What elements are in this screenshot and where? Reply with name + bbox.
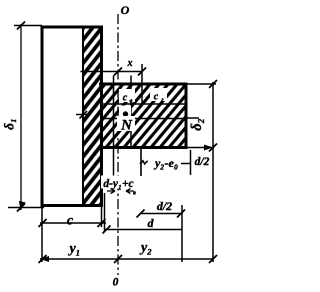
svg-text:y₂-e₀: y₂-e₀ (153, 156, 178, 170)
svg-text:y₁: y₁ (67, 242, 80, 257)
svg-text:O: O (121, 3, 130, 17)
N height mark on strip (76, 114, 91, 116)
y1 y2 dimension (40, 258, 214, 260)
ticks c_v c_g (112, 100, 120, 108)
d dimension (104, 193, 106, 231)
internal vertical x=131 (130, 76, 132, 148)
label d-y1+c_v (101, 176, 138, 189)
row: y2-e0 and d/2 labels (140, 148, 142, 176)
right block outline (99, 84, 186, 148)
svg-text:c: c (123, 93, 128, 104)
svg-text:d/2: d/2 (195, 156, 210, 168)
svg-text:d: d (148, 216, 155, 230)
b2 dimension (186, 83, 216, 85)
svg-text:c: c (154, 92, 159, 103)
x dimension (81, 71, 143, 73)
hatched compressed zone (strip + right block) (83, 27, 102, 206)
d/2 dimension bottom (181, 205, 183, 262)
c dimension (41, 206, 43, 263)
svg-text:d/2: d/2 (157, 199, 172, 213)
svg-text:N: N (120, 118, 133, 134)
svg-text:δ₁: δ₁ (2, 118, 17, 130)
label c_g (150, 88, 167, 104)
b1 dimension (14, 25, 42, 27)
internal line y=104 (102, 103, 187, 105)
svg-text:в: в (130, 98, 133, 105)
left rectangle outline (42, 27, 102, 206)
svg-text:0: 0 (113, 277, 119, 289)
label N (117, 116, 135, 134)
load point dot (119, 106, 131, 118)
svg-text:x: x (127, 58, 133, 69)
svg-text:y₂: y₂ (139, 241, 152, 256)
axis O-O (117, 14, 119, 275)
internal vertical x=111.5 (113, 76, 115, 177)
svg-text:d-y₁+c: d-y₁+c (103, 178, 133, 190)
svg-text:δ₂: δ₂ (189, 118, 205, 130)
internal line y=118.5 (102, 118, 187, 120)
svg-text:c: c (67, 214, 74, 229)
strip left boundary (82, 27, 84, 206)
label c_v (119, 89, 135, 105)
